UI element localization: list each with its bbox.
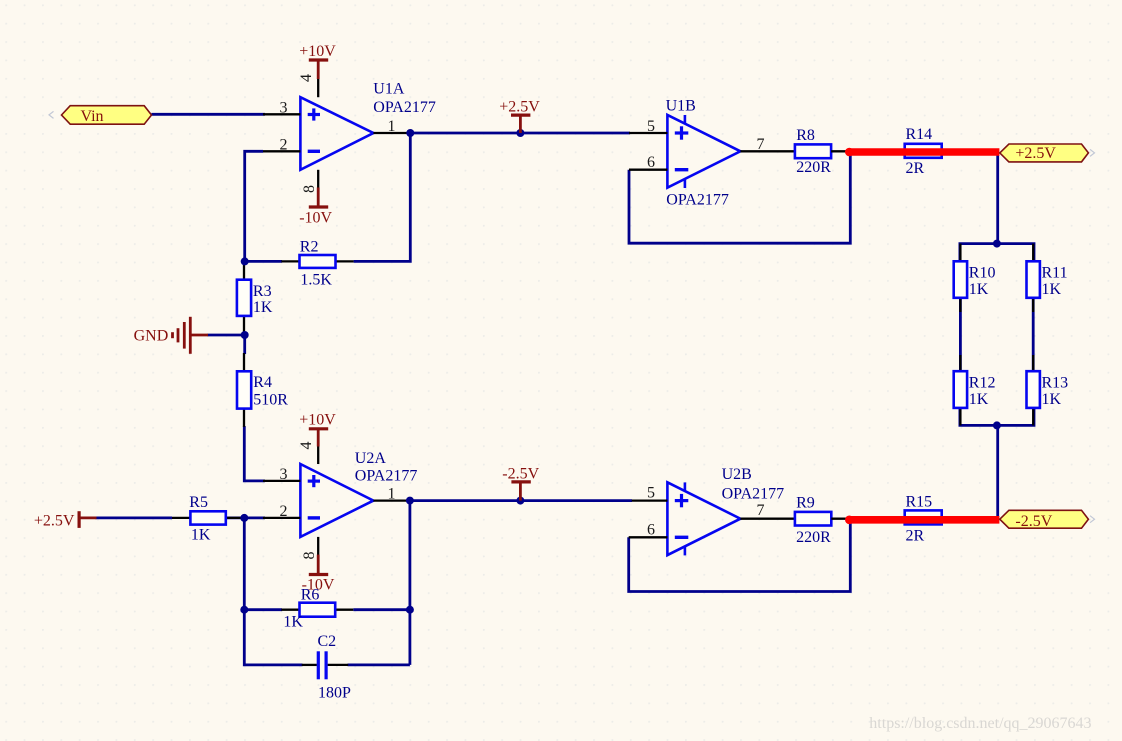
- svg-text:-2.5V: -2.5V: [502, 465, 539, 482]
- capacitor C2: [302, 633, 351, 701]
- U2A pin 3: [263, 480, 300, 482]
- power port +2.5V (left): [34, 511, 97, 529]
- wire divider top rail: [960, 244, 1034, 297]
- wire U2A output row to U2B pin5: [410, 499, 632, 502]
- wire R6 right to output vertical: [353, 608, 410, 611]
- power port +10V (U2A): [299, 412, 336, 447]
- svg-text:R3: R3: [253, 283, 272, 300]
- resistor R15: [905, 494, 942, 545]
- svg-text:1K: 1K: [1042, 281, 1062, 298]
- port Vin: [49, 106, 152, 125]
- wire R10 to R12: [959, 298, 962, 371]
- svg-text:1K: 1K: [253, 299, 273, 316]
- resistor R5: [172, 494, 244, 543]
- svg-text:OPA2177: OPA2177: [722, 486, 785, 503]
- wire R11 to R13: [1032, 298, 1035, 371]
- U1A pin 8: [317, 170, 319, 188]
- svg-text:+10V: +10V: [299, 43, 336, 60]
- divider junction bottom: [993, 421, 1001, 429]
- svg-text:2: 2: [280, 503, 288, 520]
- resistor R3: [237, 261, 273, 335]
- svg-text:OPA2177: OPA2177: [373, 99, 436, 116]
- U2A pin 4: [317, 446, 319, 464]
- svg-text:C2: C2: [318, 633, 337, 650]
- resistor R2: [281, 238, 353, 288]
- wire U2B feedback loop: [629, 519, 851, 592]
- wire GND stub: [208, 334, 245, 337]
- U1A pin 4: [317, 78, 319, 97]
- ground GND: [134, 317, 208, 354]
- resistor R13: [1027, 355, 1069, 425]
- power port +10V (U1A): [299, 43, 336, 79]
- power port -10V (U1A): [299, 188, 332, 227]
- junction R6 left: [240, 606, 248, 614]
- svg-text:2: 2: [280, 136, 288, 153]
- svg-text:R15: R15: [906, 494, 933, 511]
- U1A pin 3: [263, 113, 300, 115]
- svg-text:+2.5V: +2.5V: [1015, 145, 1056, 162]
- svg-text:1.5K: 1.5K: [300, 272, 332, 289]
- U1A pin 2: [263, 150, 300, 152]
- junction GND: [241, 331, 249, 339]
- wire U1A output row to U1B pin5: [410, 132, 631, 135]
- svg-text:https://blog.csdn.net/qq_29067: https://blog.csdn.net/qq_29067643: [869, 715, 1091, 732]
- svg-text:U2B: U2B: [722, 466, 752, 483]
- svg-text:1: 1: [388, 118, 396, 135]
- bus wire -2.5V (red): [845, 516, 999, 525]
- svg-text:6: 6: [647, 154, 655, 171]
- junction U2A out: [406, 497, 414, 505]
- svg-text:U1B: U1B: [666, 97, 696, 114]
- svg-text:R8: R8: [796, 127, 815, 144]
- svg-text:6: 6: [647, 522, 655, 539]
- svg-text:220R: 220R: [796, 529, 831, 546]
- U2B pin 6: [629, 536, 668, 538]
- svg-text:U1A: U1A: [373, 80, 405, 97]
- wire divider bottom rail: [960, 372, 1034, 425]
- wire R5 to U2A pin2: [226, 517, 265, 520]
- wire R4 to U2A pin3: [244, 426, 265, 481]
- svg-text:7: 7: [757, 502, 765, 519]
- wire +2.5V port to R5: [96, 517, 173, 520]
- resistor R6: [281, 587, 353, 631]
- svg-text:1K: 1K: [283, 614, 303, 631]
- svg-text:-10V: -10V: [299, 209, 332, 226]
- svg-text:R2: R2: [300, 238, 319, 255]
- svg-text:+2.5V: +2.5V: [499, 99, 540, 116]
- U1B pin 6: [629, 169, 667, 171]
- wire divider bottom to -2.5V flag: [996, 425, 999, 518]
- svg-text:Vin: Vin: [81, 108, 104, 125]
- U2A pin 1: [373, 499, 410, 501]
- svg-text:OPA2177: OPA2177: [666, 191, 729, 208]
- svg-text:+10V: +10V: [299, 412, 336, 429]
- svg-text:5: 5: [647, 485, 655, 502]
- U1B pin 7: [740, 150, 795, 152]
- U1A pin 1: [373, 132, 410, 134]
- svg-text:7: 7: [757, 136, 765, 153]
- junction R5 right: [240, 514, 248, 522]
- svg-text:R9: R9: [796, 495, 815, 512]
- junction R6 right: [406, 606, 414, 614]
- op-amp U1B: [667, 115, 740, 188]
- resistor R8: [795, 127, 848, 176]
- svg-text:220R: 220R: [796, 159, 831, 176]
- svg-text:4: 4: [298, 442, 315, 450]
- svg-text:1K: 1K: [969, 281, 989, 298]
- wire U2A output down to C2: [408, 501, 411, 665]
- U2B pin 5: [632, 499, 668, 501]
- svg-text:GND: GND: [134, 328, 169, 345]
- svg-text:1K: 1K: [969, 391, 989, 408]
- svg-text:5: 5: [647, 118, 655, 135]
- svg-text:8: 8: [301, 185, 318, 193]
- power port -2.5V (mid bottom): [502, 465, 539, 504]
- resistor R4: [237, 353, 288, 427]
- wire U1B feedback loop: [629, 152, 850, 244]
- svg-text:8: 8: [301, 552, 318, 560]
- U2A pin 8: [317, 537, 319, 555]
- svg-text:R12: R12: [969, 374, 996, 391]
- svg-text:OPA2177: OPA2177: [355, 468, 418, 485]
- svg-text:1: 1: [388, 486, 396, 503]
- svg-text:510R: 510R: [253, 391, 288, 408]
- op-amp U2A: [300, 464, 373, 537]
- svg-text:+2.5V: +2.5V: [34, 513, 75, 530]
- junction R2 left: [241, 257, 249, 265]
- svg-text:R6: R6: [301, 587, 320, 604]
- svg-text:3: 3: [280, 466, 288, 483]
- port +2.5V flag: [1000, 144, 1095, 162]
- resistor R14: [905, 126, 942, 177]
- U2B pin 7: [740, 518, 795, 520]
- resistor R10: [954, 244, 996, 312]
- resistor R12: [954, 355, 996, 425]
- wire R5 junction down to R6 and C2: [244, 518, 302, 665]
- wire R2 left junction: [245, 260, 282, 263]
- wire R6 left junction: [244, 608, 282, 611]
- bus wire +2.5V (red): [845, 148, 999, 157]
- svg-text:2R: 2R: [906, 160, 925, 177]
- svg-text:R5: R5: [189, 494, 208, 511]
- resistor R11: [1027, 244, 1068, 312]
- svg-text:180P: 180P: [318, 684, 351, 701]
- svg-text:1K: 1K: [1042, 391, 1062, 408]
- divider junction top: [993, 240, 1001, 248]
- power port -10V (U2A): [302, 555, 335, 594]
- junction U1A out: [406, 129, 414, 137]
- svg-text:3: 3: [280, 99, 288, 116]
- op-amp U2B: [667, 482, 740, 555]
- power port +2.5V (mid top): [499, 99, 540, 138]
- svg-text:U2A: U2A: [355, 450, 387, 467]
- svg-text:R4: R4: [253, 374, 272, 391]
- wire U1A pin2 corner to R2 junction: [245, 151, 263, 261]
- U2A pin 2: [263, 517, 300, 519]
- svg-text:R13: R13: [1042, 374, 1069, 391]
- svg-text:R10: R10: [969, 264, 996, 281]
- port -2.5V flag: [1000, 510, 1095, 530]
- svg-text:1K: 1K: [191, 527, 211, 544]
- wire +2.5V flag down to divider top rail: [996, 152, 999, 244]
- wire Vin to U1A pin3: [152, 113, 266, 116]
- svg-text:R14: R14: [906, 126, 933, 143]
- svg-text:4: 4: [298, 74, 315, 82]
- op-amp U1A: [300, 97, 373, 170]
- wire R3 to R4: [243, 333, 246, 354]
- wire U1A output down to R2 right: [354, 133, 411, 261]
- svg-text:2R: 2R: [906, 528, 925, 545]
- wire C2 right to output vertical: [348, 664, 410, 667]
- resistor R9: [795, 495, 848, 547]
- svg-text:R11: R11: [1042, 264, 1068, 281]
- U1B pin 5: [629, 132, 667, 134]
- svg-text:-2.5V: -2.5V: [1015, 513, 1052, 530]
